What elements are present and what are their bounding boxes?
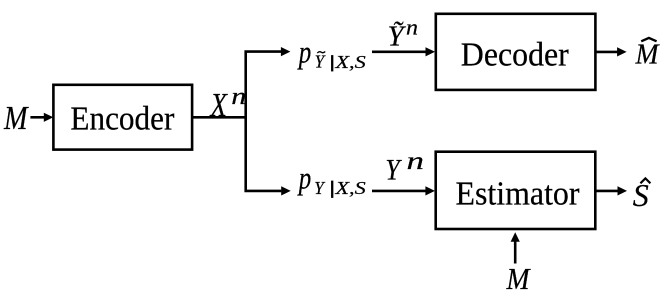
svg-text:n: n	[407, 148, 425, 175]
svg-text:Encoder: Encoder	[70, 101, 174, 138]
svg-text:M: M	[506, 261, 532, 296]
svg-text:Decoder: Decoder	[461, 37, 569, 74]
svg-text:n: n	[406, 15, 418, 40]
block Encoder box	[53, 85, 192, 150]
wire splitter vertical with elbows	[246, 52, 282, 191]
arrowhead to Shat	[618, 186, 628, 195]
block Estimator box	[436, 152, 596, 229]
wire into Estimator	[372, 190, 426, 193]
arrowhead into Estimator	[425, 186, 435, 195]
svg-text:n: n	[231, 84, 246, 110]
conditioning bar in p_{Ytilde|X,S}	[331, 55, 333, 71]
arrowhead into Encoder	[44, 113, 54, 122]
arrowhead bottom branch	[281, 186, 291, 195]
wire M into Estimator bottom	[514, 241, 517, 263]
svg-text:p: p	[297, 160, 311, 196]
arrowhead up into Estimator	[511, 232, 520, 242]
svg-text:Estimator: Estimator	[456, 175, 580, 212]
svg-text:p: p	[297, 33, 311, 69]
hat over Shat	[640, 178, 650, 183]
arrowhead into Decoder	[426, 47, 436, 56]
block Decoder box	[436, 14, 596, 90]
wire Decoder to Mhat	[596, 51, 617, 54]
svg-text:M: M	[635, 39, 661, 71]
wire M to Encoder	[30, 116, 44, 119]
wire into Decoder	[372, 50, 426, 53]
wire Estimator to Shat	[596, 190, 618, 193]
arrowhead to Mhat	[617, 47, 627, 56]
hat over Mhat	[641, 38, 656, 41]
wire Encoder output to junction	[193, 116, 247, 119]
svg-text:X: X	[209, 87, 228, 124]
svg-text:X,S: X,S	[334, 52, 365, 72]
arrowhead top branch	[281, 47, 291, 56]
conditioning bar in p_{Y|X,S}	[331, 181, 333, 198]
tilde over subscript Y	[317, 52, 325, 54]
svg-text:M: M	[3, 100, 29, 137]
svg-text:X,S: X,S	[334, 178, 365, 198]
